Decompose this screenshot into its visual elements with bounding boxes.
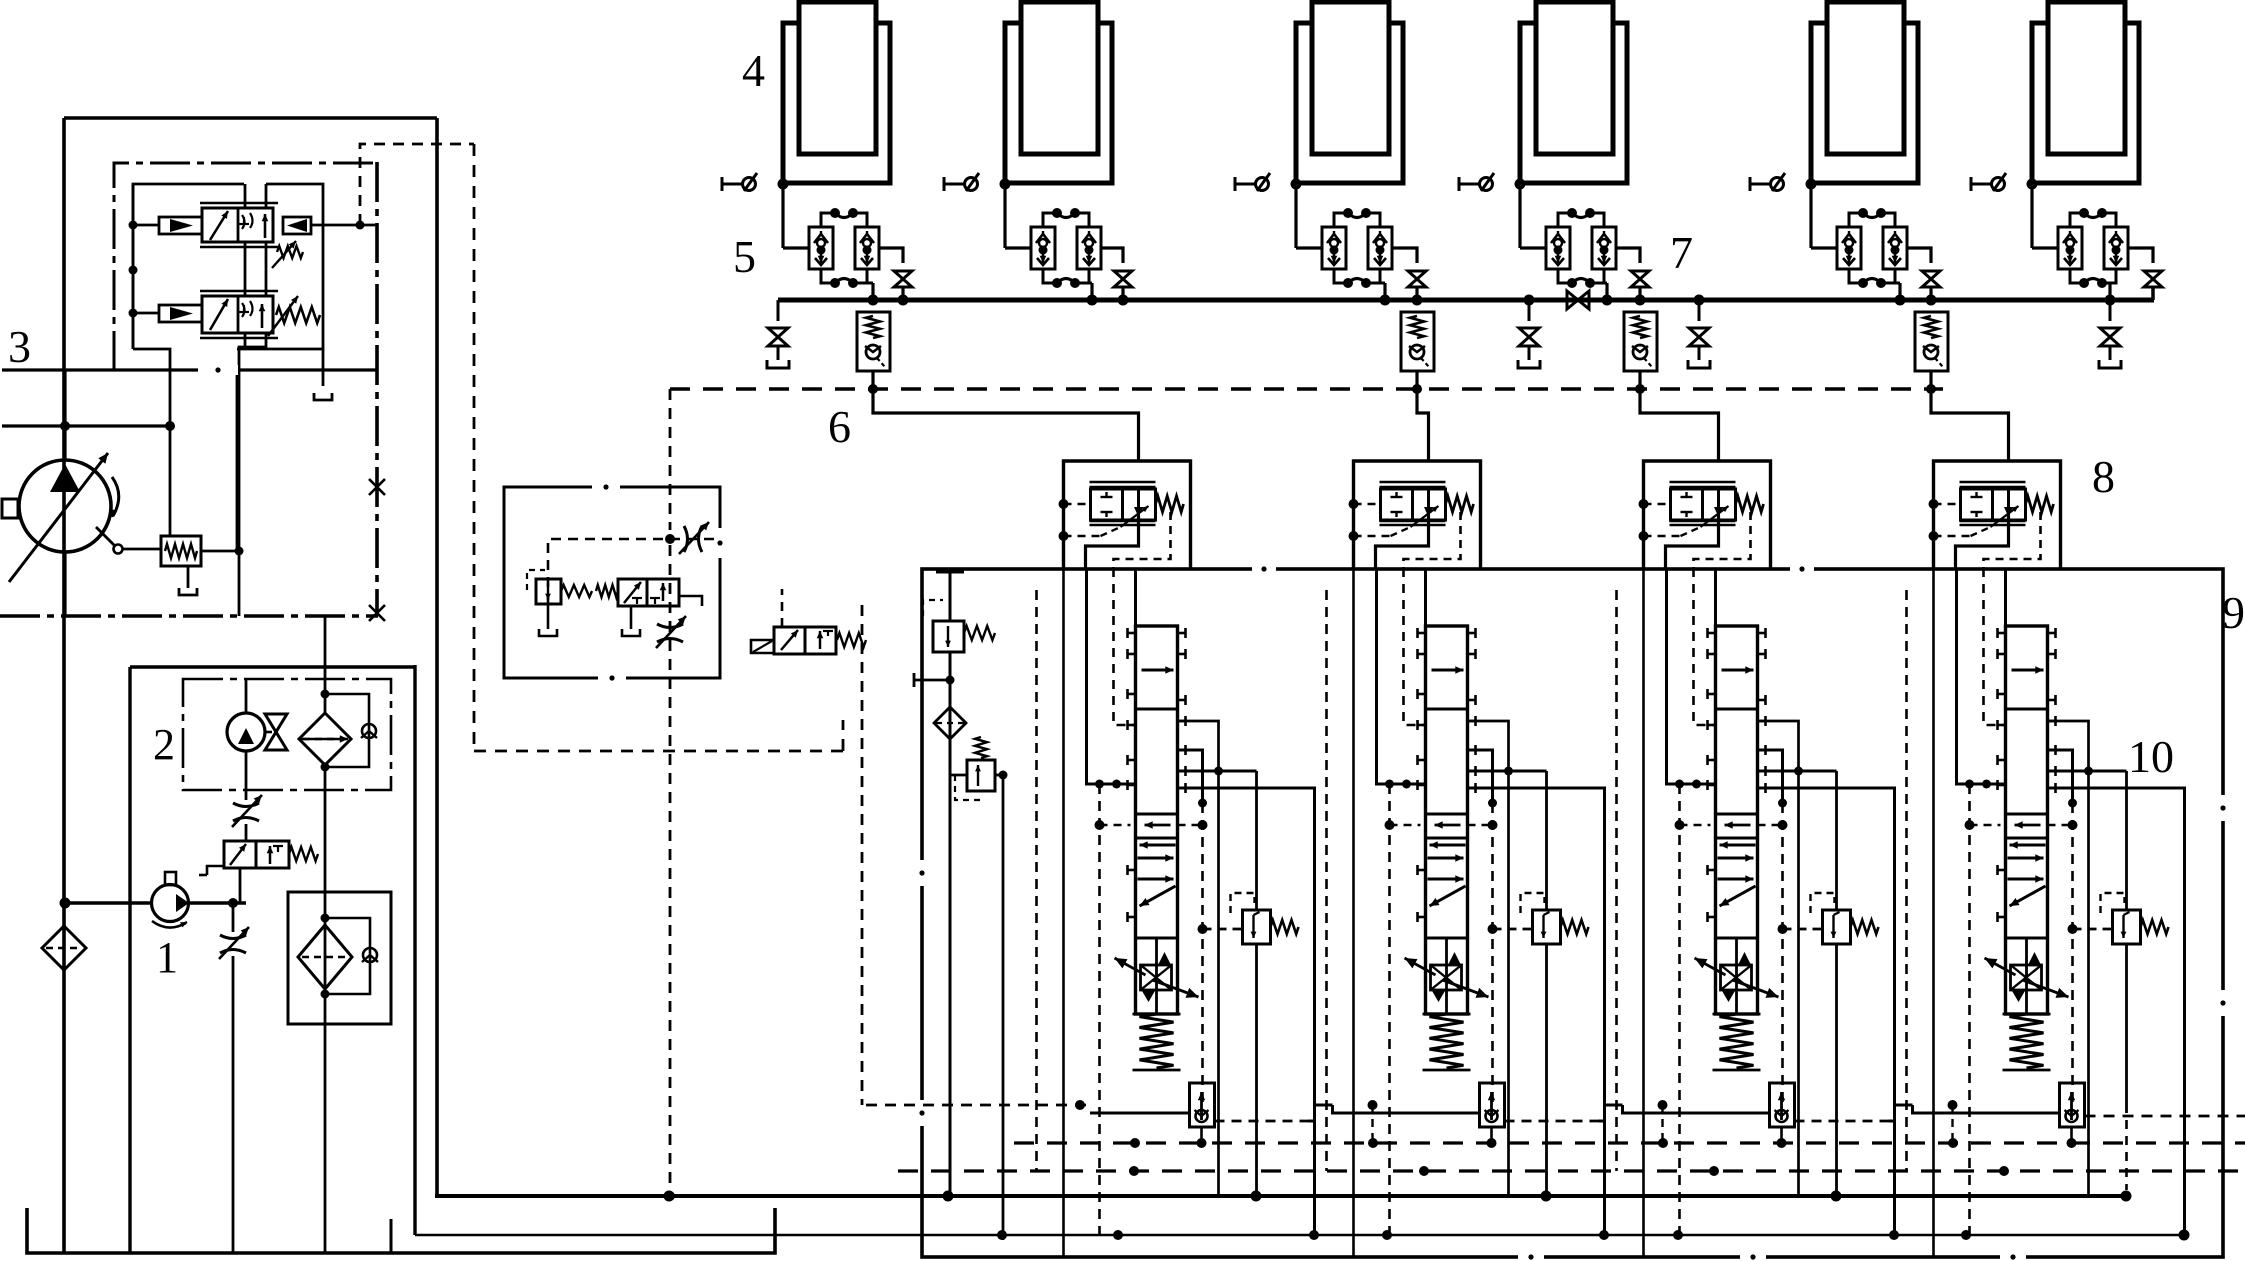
circulation pump 1 [152,885,189,922]
node at return bus [665,1191,675,1201]
bank 3 relief drain [1835,944,1838,1196]
pump unit 3 enclosure top edge [64,116,437,120]
filter F2 bypass loop [325,918,370,994]
bank 2 dashed right drop [1491,803,1494,1105]
bank 2 wire D [1468,750,1493,803]
pilot solenoid T [823,631,833,636]
bypass check ball [361,724,377,738]
block 6 frame chain gaps [592,482,725,683]
bank 1 spool supply [1134,569,1137,626]
lock valve 3 outlet pipe [1392,248,1417,263]
lock valve 3 bottom pipe [1380,283,1385,300]
work return dashed to edge [2085,1115,2245,1118]
bank 4 pilot dashed from block8 [1984,568,2006,725]
cooler motor triangle [238,728,254,744]
work node [1368,1100,1378,1110]
block 9 boundary chain gaps [917,564,2228,1261]
system relief valve [933,621,964,652]
cylinder 2 breather/check [944,173,979,191]
V2 cell divider [237,296,240,333]
label 9 [2222,587,2245,638]
bank 4 right wire extra [2048,770,2089,773]
svg-text:5: 5 [733,231,756,282]
double pilot check valve 2 (item 5) [1031,208,1101,288]
relief line [949,652,952,1196]
bank node [2068,799,2077,808]
cylinder 4 port node [1515,179,1526,190]
bypass valve arrow2 [267,846,274,864]
bank 1 left line A [1062,568,1065,1256]
bank 3 wire D [1758,750,1783,803]
svg-text:1: 1 [156,933,178,982]
filter F1 diamond [299,713,351,765]
pilot selector arrow 2 [660,583,667,601]
cooler motor circle [227,713,265,751]
control block chain enclosure [114,163,377,371]
bank 1 wire D [1178,750,1203,803]
pump unit 3 bottom boundary (chain line) [0,614,378,618]
pilot bus wire [132,184,135,349]
V2 left pilot triangle [170,307,193,320]
pilot control dashed bus [670,387,1943,390]
LS gallery line [2,368,378,371]
pilot selector valve body [618,579,679,606]
work line dashed left end [866,1104,1090,1107]
bank pilot dashed row b [1468,824,1493,827]
bank 1 right wire extra [1178,770,1219,773]
cylinder 5 pipe to lock valve [1811,246,1837,249]
bank 4 relief riser [2125,771,2128,910]
bank 1 relief riser [1255,771,1258,910]
pilot check valve 3 (item 6) [1624,312,1657,371]
reducing valve spring [975,737,987,758]
tank notch [390,1219,393,1253]
bank 3 dashed right drop [1781,803,1784,1105]
unloading relief arrow [545,583,551,600]
svg-text:2: 2 [153,720,175,769]
cylinder 2 pipe to lock valve [1005,246,1031,249]
bank 3 relief riser [1835,771,1838,910]
bank 1 dashed left drop [1035,590,1038,1171]
system relief pilot corner [923,600,943,616]
pilot cartridge block 8-2 [1349,461,1481,568]
shutoff valve 3 [1408,271,1426,287]
bank 4 left line B [1957,568,2006,784]
pump 3 variable arrow [9,453,108,582]
shutoff valve 2 pipe [1121,287,1124,300]
label 1 [156,933,178,982]
cylinder 6 pipe to lock valve [2032,246,2058,249]
bank node [1794,767,1803,776]
junction node [165,421,175,431]
system relief arrow [945,626,951,647]
plugged port X2 on boundary [369,605,385,621]
pump 1 branch line [232,903,235,1253]
shutoff valve 2 [1114,271,1132,287]
wire [245,824,248,841]
pump 3 output triangle [50,464,80,492]
bank 4 wire D [2048,750,2073,803]
pilot selector bracket [679,596,702,606]
cylinder 5 breather/check [1750,173,1785,191]
bank 3 left line B [1667,568,1716,784]
cylinder 1 port node [778,179,789,190]
work dashed link [1951,1105,1953,1143]
work return step 2 [1599,1105,1623,1121]
label 10 [2128,731,2174,782]
shutoff valve 6 [2144,271,2162,287]
label 5 [733,231,756,282]
V1 right pilot wire [311,224,377,227]
work return dashed seg 1 [1215,1120,1309,1123]
cylinder 4 port line [1520,181,1627,184]
tank symbol [622,629,640,636]
cooler outlet line [245,751,248,800]
lock valve 6 outlet pipe [2128,248,2153,263]
cooler fan [265,714,287,750]
label 8 [2092,451,2115,502]
filter F1 bypass loop [325,694,369,767]
check 2 pilot stub [1416,371,1419,389]
strainer diamond [42,926,86,970]
work return line bank 2 [1333,1105,1480,1113]
bypass valve spring [289,847,318,861]
displacement valve drain [187,566,190,588]
pilot cartridge block 8-4 [1929,461,2061,568]
svg-text:10: 10 [2128,731,2174,782]
pilot selector arrow [624,582,641,603]
node [1075,1100,1085,1110]
bank pilot row dots [1675,820,1788,830]
gallery chain gap [198,365,238,375]
bank pilot dashed row b [1758,824,1783,827]
bank pilot row dots [1095,820,1208,830]
bank wire C2 [2089,770,2127,773]
V2 arc marks [242,301,253,317]
bank pilot dashed row [1390,824,1421,827]
V1 up arrow [262,214,269,238]
node a3 [129,309,160,318]
bypass valve outlet [239,868,242,903]
bank 1 dashed pilot drop [1095,780,1104,1236]
pump 3 shaft [2,499,18,518]
V2 internal T [239,305,249,312]
lock valve 2 bottom pipe [1089,283,1092,300]
bypass check ball 2 [362,948,378,962]
node a2 [129,266,138,275]
bank 3 wire C [1758,721,1799,1196]
pilot valve group frame bottom step [133,349,170,426]
drain valve d [2099,300,2121,368]
bank node [1504,767,1513,776]
unloading relief springs [561,585,618,597]
pump 3 case drain [63,552,66,616]
pilot bus node [868,384,878,394]
work node [1948,1100,1958,1110]
bank pilot dashed row [1680,824,1711,827]
tank symbol [179,588,197,595]
bank 2 pilot dashed from block8 [1404,568,1426,725]
power unit 2 frame right [413,665,416,1235]
pilot line to valve block 6 [360,144,474,225]
bank 2 relief riser [1545,771,1548,910]
check 3 pilot stub [1639,371,1642,389]
bank 1 left line B [1087,568,1136,784]
double pilot check valve 3 (item 5) [1322,208,1392,288]
plugged port X1 on boundary [369,479,385,495]
port mark [936,572,964,621]
pilot dashed drop [669,545,672,1196]
bank 4 left line A [1932,568,1935,1256]
V1 cap lines [200,203,278,247]
drain collector line [415,1234,2184,1237]
restrictor r3 [679,522,709,554]
lock valve 5 bottom pipe [1895,283,1900,300]
work return line bank 3 [1623,1105,1770,1113]
cylinder 4 breather/check [1459,173,1494,191]
bus node [1130,1138,1958,1148]
pilot valve group frame [133,184,244,349]
shutoff valve 1 pipe [901,287,904,300]
manifold node [2105,295,2116,306]
bank 2 return elbow [1468,788,1605,1235]
multi-way valve bank 2 [1405,626,1589,1148]
gauge port bar [914,673,950,687]
tank symbol under control block [314,393,332,400]
bank pilot arrow [2015,821,2041,828]
work return line bank 4 [1913,1105,2060,1113]
bank 2 left line A [1352,568,1355,1256]
plunger cylinder 5 (item 4) [1811,2,1918,183]
line from pump unit 3 to bottom manifold [435,118,439,1196]
bus node [1129,1166,2009,1176]
manifold node [1602,295,1646,306]
filter F2 line [324,767,327,1253]
check 1 pilot stub [872,371,875,389]
cylinder 2 port node [1000,179,1011,190]
node [321,914,330,999]
V1 left pilot triangle [170,219,193,232]
double pilot check valve 1 (item 5) [809,208,879,288]
pump unit 3 right boundary (chain line) [375,162,379,614]
label 3 [8,321,31,372]
lock valve 1 bottom pipe [867,283,873,300]
V1 internal T [239,217,249,224]
bank pilot row dots [1965,820,2078,830]
tank bottom corner [27,1208,775,1253]
svg-text:3: 3 [8,321,31,372]
pilot cartridge block 8-1 [1059,461,1191,568]
pilot drain bus (dashed) [1014,1141,2245,1144]
bank pilot dashed row b [1178,824,1203,827]
pilot bus node [1926,384,1936,394]
bank wire C2 [1219,770,1257,773]
supply pipe check4 to block8-4 [1931,371,2009,461]
isolating valve 7 [1567,291,1589,309]
work return dashed seg 2 [1505,1120,1599,1123]
strainer dashed core [46,947,82,949]
reducing valve [967,760,995,791]
pilot solenoid coil [751,640,774,653]
bus node [997,1230,2190,1241]
double pilot check valve 6 (item 5) [2058,208,2128,288]
drain valve a [767,300,789,368]
V1 arc marks [242,213,253,229]
manifold node [1895,295,1937,306]
cylinder 5 port node [1806,179,1817,190]
bank 4 relief drain [2125,944,2128,1190]
pilot cartridge block 8-3 [1639,461,1771,568]
svg-text:7: 7 [1670,227,1693,278]
check 4 pilot stub [1930,371,1933,389]
power unit 2 frame top [130,665,415,668]
node [321,690,330,772]
bank pilot dashed row [1100,824,1131,827]
bypass valve arrow [230,844,246,865]
displacement control valve [161,536,201,566]
cylinder 1 port line [783,181,890,184]
unloading relief drain [547,604,550,629]
manifold node [868,295,909,306]
pilot bus 2 (dashed) [898,1169,2245,1172]
node a1 [129,221,160,230]
filter F2 diamond [298,925,352,989]
pilot valve group frame right [237,184,323,349]
V2 left pilot box [159,305,202,322]
cooler drive line [245,679,248,713]
cylinder 4 pipe to lock valve [1520,246,1546,249]
reducing valve inlet [950,774,967,777]
cylinder 4 drop pipe [1518,184,1521,248]
reducing valve dashed box [955,775,981,800]
block 6 dashed enclosure right [842,720,845,751]
bank node [2084,767,2093,776]
pilot bus node [1635,384,1645,394]
bank pilot dashed row b [2048,824,2073,827]
shutoff valve 5 pipe [1929,287,1932,300]
svg-text:8: 8 [2092,451,2115,502]
work dashed link [1371,1105,1373,1143]
pilot supply dashed drop [473,144,476,751]
bypass valve 2pos [224,841,289,868]
block 6 inner frame [504,487,720,678]
work return line bank 1 [1090,1112,1190,1115]
double pilot check valve 4 (item 5) [1546,208,1616,288]
V2 cap lines [200,291,278,338]
svg-text:9: 9 [2222,587,2245,638]
shutoff valve 1 [894,271,912,287]
cooler riser [324,616,327,667]
bank 4 dashed right drop [2071,803,2074,1105]
multi-way valve bank 3 [1695,626,1879,1148]
bank 2 relief drain [1545,944,1548,1196]
lock valve 1 outlet pipe [879,248,903,263]
bank node [1488,799,1497,808]
valve wire to lever valve [236,368,239,550]
label 7 [1670,227,1693,278]
manifold node [1380,295,1423,306]
V1 cell divider [237,208,240,242]
main manifold line [778,298,2154,303]
valve supply wire [265,242,268,296]
pump 3 rotation arrow [111,477,119,517]
bypass valve lever [199,866,224,875]
bank 4 wire C [2048,721,2089,1196]
unloading relief valve body [536,579,561,604]
node [665,534,675,544]
lock valve 5 outlet pipe [1907,248,1931,263]
bank pilot dashed row [1970,824,2001,827]
restrictor r1 [232,795,262,827]
pump 1 outlet [189,901,246,904]
plunger cylinder 2 (item 4) [1005,2,1112,183]
drain valve b [1518,300,1540,368]
restrictor r4 [656,616,686,648]
node [946,676,955,685]
work node [1658,1100,1668,1110]
filter F1 riser [324,667,327,713]
svg-text:4: 4 [742,45,765,96]
cylinder 3 pipe to lock valve [1296,246,1322,249]
suction line [64,901,152,904]
bank 2 left line B [1377,568,1426,784]
V2 compensator arrow [210,299,228,330]
bank 1 return elbow [1178,788,1315,1235]
cylinder 1 drop pipe [781,184,784,248]
cylinder 5 port line [1811,181,1918,184]
manifold node [1524,295,1705,306]
bank node [1778,799,1787,808]
cylinder 1 breather/check [722,173,757,191]
plunger cylinder 6 (item 4) [2032,2,2139,183]
pilot solenoid arrow [781,630,798,650]
drain valve c [1688,300,1710,368]
bank 3 right wire extra [1758,770,1799,773]
valve manifold block 9 outline [922,569,2223,1257]
cylinder 6 port node [2027,179,2038,190]
pilot bus node [1412,384,1422,394]
wire to displacement valve [169,426,172,536]
filter F1 arrow [300,735,348,742]
cylinder 3 port node [1291,179,1302,190]
cylinder 2 drop pipe [1003,184,1006,248]
system relief spring [964,626,995,640]
pilot check valve 4 (item 6) [1915,312,1948,371]
bank pilot arrow [1725,821,1751,828]
reducing valve arrow [975,765,981,786]
tank line from frame [322,349,325,386]
supply jog to drain line [239,333,266,616]
bank 4 dashed pilot drop [1965,780,1974,1236]
cylinder 5 drop pipe [1809,184,1812,248]
proportional valve V2 body [202,296,273,333]
work return dashed seg 3 [1795,1120,1889,1123]
gallery end mark [0,0,1,1]
cylinder 3 port line [1296,181,1403,184]
bank 3 left line A [1642,568,1645,1256]
svg-text:6: 6 [828,401,851,452]
pilot dashed riser [669,389,672,530]
block 6 pilot dashed box [548,539,720,604]
pilot selector drain [630,606,633,629]
restrictor r2 [219,927,249,959]
pilot solenoid top wire [781,589,784,627]
bank 1 pilot dashed from block8 [1114,568,1136,725]
supply pipe check3 to block8-3 [1640,371,1719,461]
valve drain wire [244,333,247,349]
V1 right pilot triangle [287,219,307,232]
shutoff valve 5 [1922,271,1940,287]
